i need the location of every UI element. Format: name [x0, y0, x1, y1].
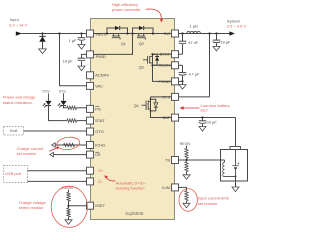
- svg-text:Input current-limit: Input current-limit: [198, 196, 230, 201]
- svg-text:1 µF: 1 µF: [69, 39, 77, 43]
- svg-text:BAT: BAT: [163, 115, 171, 120]
- svg-text:D+: D+: [98, 169, 104, 173]
- svg-text:47 nF: 47 nF: [188, 41, 198, 45]
- svg-text:Q4: Q4: [134, 104, 139, 108]
- svg-text:3.9 – 14 V: 3.9 – 14 V: [9, 22, 28, 27]
- svg-text:SW: SW: [164, 31, 171, 36]
- svg-text:ACDRV: ACDRV: [95, 73, 109, 78]
- svg-text:set resistor: set resistor: [198, 201, 218, 206]
- svg-text:Input: Input: [10, 17, 20, 22]
- svg-text:VAC: VAC: [95, 83, 103, 88]
- svg-text:bq25606: bq25606: [126, 211, 144, 216]
- svg-text:FET: FET: [201, 108, 209, 113]
- svg-text:Host: Host: [10, 129, 19, 133]
- svg-text:Q3: Q3: [139, 65, 144, 69]
- svg-text:REGN: REGN: [158, 63, 170, 68]
- svg-text:VBUS: VBUS: [95, 32, 106, 37]
- svg-text:set resistor: set resistor: [17, 151, 37, 156]
- svg-text:10 µF: 10 µF: [207, 121, 217, 125]
- svg-text:status indicators.: status indicators.: [3, 100, 33, 105]
- svg-text:USB port: USB port: [5, 171, 22, 176]
- svg-text:Q1: Q1: [121, 42, 126, 46]
- svg-text:SYS: SYS: [42, 89, 50, 93]
- svg-text:select resistor: select resistor: [19, 205, 44, 210]
- svg-text:REGN: REGN: [180, 142, 191, 146]
- svg-text:TS: TS: [165, 157, 170, 162]
- svg-text:PG: PG: [95, 106, 101, 111]
- svg-text:STAT: STAT: [95, 118, 105, 123]
- svg-text:3.5 – 4.6 V: 3.5 – 4.6 V: [227, 23, 247, 28]
- svg-text:power converter: power converter: [112, 7, 141, 12]
- svg-text:1 µH: 1 µH: [190, 25, 198, 29]
- svg-text:VSET: VSET: [95, 203, 106, 208]
- svg-text:CE: CE: [95, 152, 101, 157]
- svg-text:Q2: Q2: [139, 42, 144, 46]
- svg-text:sensing function: sensing function: [116, 185, 145, 190]
- svg-text:PGND: PGND: [158, 79, 170, 84]
- svg-text:ICHG: ICHG: [95, 142, 105, 147]
- svg-text:OTG: OTG: [95, 129, 104, 134]
- svg-text:ILIM: ILIM: [162, 185, 170, 190]
- svg-text:10 µF: 10 µF: [63, 59, 73, 63]
- svg-text:SYS: SYS: [162, 94, 170, 99]
- svg-text:10 µF: 10 µF: [221, 40, 231, 44]
- svg-text:BTST: BTST: [160, 52, 171, 57]
- svg-text:SYS: SYS: [59, 89, 67, 93]
- svg-text:4.7 µF: 4.7 µF: [189, 72, 201, 76]
- svg-text:PMID: PMID: [96, 54, 106, 59]
